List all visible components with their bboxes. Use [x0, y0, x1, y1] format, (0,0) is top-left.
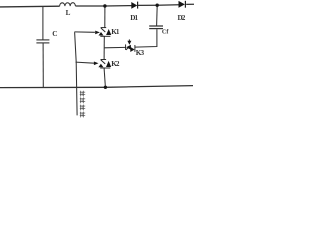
svg-text:D2: D2	[178, 14, 186, 22]
svg-text:K3: K3	[136, 49, 145, 57]
svg-text:K2: K2	[111, 60, 120, 68]
svg-text:C: C	[52, 30, 57, 38]
svg-text:L: L	[66, 9, 71, 17]
svg-text:Cf: Cf	[162, 29, 169, 36]
svg-text:D1: D1	[130, 14, 138, 22]
svg-text:K1: K1	[111, 28, 120, 36]
